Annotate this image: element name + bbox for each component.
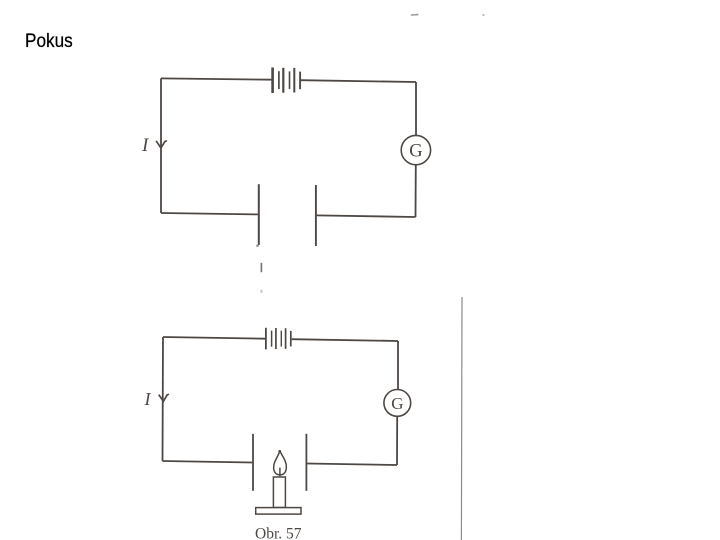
scan artifact dot [256,245,258,247]
capacitor C2 left plate [252,434,254,491]
capacitor C2 right plate [305,434,307,491]
title Pokus [25,30,73,53]
wire bottom circuit: galvanometer to bottom-right corner [396,416,398,465]
wire bottom circuit: right side down to galvanometer [397,341,399,390]
wire top circuit: top-left horizontal segment [161,78,271,79]
battery B2 [266,328,291,350]
scan artifact faint dot [260,290,262,293]
svg-text:G: G [409,142,422,162]
scan artifact top dot [483,14,485,16]
galvanometer U1 circle [401,135,430,164]
wire bottom circuit: top-left horizontal segment [163,337,265,339]
wire bottom circuit: battery to top-right corner [292,339,398,341]
capacitor C1 right plate [315,185,317,246]
page edge line [460,297,463,540]
svg-text:G: G [391,394,403,413]
wire top circuit: galvanometer to bottom-right corner [415,165,417,217]
wire bottom circuit: left plate to bottom-left corner [163,461,253,463]
wire top circuit: right side down to galvanometer [415,82,417,135]
svg-text:Obr. 57: Obr. 57 [255,526,302,540]
wire top circuit: bottom-right horizontal to right plate [317,215,416,217]
wire top circuit: left plate to bottom-left corner [161,213,258,214]
candle flame tip curl [279,450,281,451]
galvanometer U2 circle [384,390,411,417]
wire bottom circuit: bottom-right horizontal to right plate [307,464,397,466]
candle flame [274,451,287,475]
svg-text:I: I [141,135,150,156]
arrowhead current direction top circuit [156,141,167,148]
candle wick [279,468,281,477]
candle body [273,477,285,508]
wire top circuit: left side vertical [160,78,162,213]
scan artifact top dash [411,14,419,16]
battery B1 [273,68,301,94]
wire top circuit: battery to top-right corner [301,80,416,82]
candle holder [256,508,301,514]
wire bottom circuit: left side vertical [162,337,165,461]
capacitor C1 left plate [258,184,260,245]
scan artifact dash [260,263,262,272]
svg-text:I: I [144,389,152,409]
arrowhead current direction bottom circuit [159,394,169,401]
